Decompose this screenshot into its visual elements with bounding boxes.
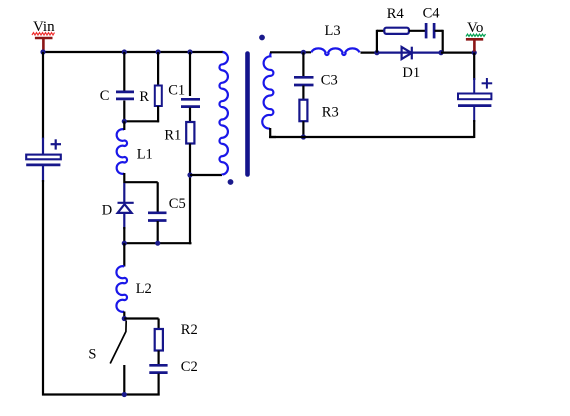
svg-text:C5: C5: [169, 196, 186, 212]
wire L1 bottom lead: [123, 173, 125, 183]
wire D bottom: [123, 227, 125, 244]
switch S blade: [110, 321, 126, 364]
svg-text:C2: C2: [181, 359, 198, 375]
junction node L2/S/R2: [122, 316, 127, 321]
switch S fixed contact: [123, 365, 125, 396]
svg-text:R2: R2: [181, 322, 198, 338]
grammar squiggle under Vo: [466, 34, 486, 36]
wire output cap top lead: [473, 53, 475, 80]
power port Vin: [35, 38, 53, 51]
wire R2 top lead: [158, 319, 160, 331]
wire C2 bottom lead: [158, 374, 160, 396]
resistor R1: [186, 122, 194, 144]
wire left vertical lower: [42, 180, 44, 396]
capacitor C4: [426, 23, 434, 38]
wire C1 branch top: [189, 52, 191, 96]
wire R branch top: [157, 52, 159, 86]
inductor L3: [311, 48, 359, 55]
svg-text:R1: R1: [164, 127, 181, 143]
wire bottom right: [269, 136, 474, 138]
polarity dot primary: [228, 179, 234, 185]
svg-text:L2: L2: [136, 281, 152, 297]
capacitor Cout electrolytic: [458, 78, 492, 122]
svg-text:D1: D1: [402, 65, 420, 81]
junction node C branch: [122, 49, 127, 54]
wire C5 top lead: [157, 182, 159, 212]
wire R4 branch right vertical: [442, 30, 444, 53]
diode D1: [378, 47, 442, 60]
junction node R branch: [156, 49, 161, 54]
wire secondary top: [270, 51, 311, 53]
svg-text:C4: C4: [423, 6, 441, 22]
wire node to Vo: [441, 51, 475, 53]
wire R4 left lead: [377, 30, 385, 32]
svg-text:L1: L1: [137, 146, 153, 162]
svg-text:S: S: [88, 347, 96, 363]
polarity dot secondary: [259, 35, 265, 41]
power port Vo: [466, 39, 483, 51]
resistor R4: [384, 28, 409, 34]
svg-text:C1: C1: [168, 82, 185, 98]
wire R bottom: [157, 106, 159, 122]
wire L2 top lead: [123, 243, 125, 266]
resistor R2: [155, 329, 163, 351]
capacitor C2: [149, 365, 167, 372]
wire D/C5 bottom horizontal: [123, 242, 191, 244]
wire C5 bottom lead: [157, 221, 159, 244]
wire output cap bottom lead: [473, 120, 475, 138]
junction node R3 bottom: [301, 134, 306, 139]
svg-text:R3: R3: [322, 105, 339, 121]
capacitor Cin electrolytic: [26, 138, 61, 182]
wire C3 branch top: [302, 52, 304, 76]
capacitor C5: [148, 213, 167, 221]
wire R1 bottom: [189, 144, 191, 245]
wire R4 branch left vertical: [376, 30, 378, 53]
junction node C3 top: [301, 50, 306, 55]
capacitor C3: [294, 77, 314, 85]
wire bottom left: [42, 393, 160, 395]
inductor L2: [116, 266, 127, 312]
transformer core: [245, 54, 250, 175]
inductor L1: [117, 129, 127, 174]
junction node L3/R4/D1: [374, 50, 379, 55]
transformer primary winding: [219, 52, 227, 175]
wire R4-C4 lead: [409, 30, 426, 32]
junction node Vo: [472, 50, 477, 55]
junction node D1/C4: [438, 50, 443, 55]
junction node R1/primary: [187, 172, 192, 177]
svg-text:R: R: [139, 89, 149, 105]
wire left vertical upper: [42, 52, 44, 139]
wire L2 bottom lead: [123, 312, 125, 320]
wire primary bottom: [190, 174, 222, 176]
junction node Vin corner: [40, 49, 45, 54]
wire top rail: [43, 51, 223, 53]
wire D/C5 top horizontal: [124, 181, 157, 183]
svg-text:C: C: [100, 88, 110, 104]
resistor R3: [299, 100, 307, 122]
capacitor C1: [181, 99, 200, 106]
svg-text:C3: C3: [321, 72, 338, 88]
diode D: [118, 183, 134, 229]
junction node bottom wire: [122, 392, 127, 397]
resistor R: [155, 86, 162, 107]
svg-text:Vo: Vo: [467, 20, 483, 36]
wire C3-R3 lead: [302, 86, 304, 101]
capacitor C: [116, 92, 134, 99]
wire L1 top lead: [123, 121, 125, 130]
junction node C1 branch: [187, 49, 192, 54]
spellcheck squiggle under Vin: [32, 33, 55, 35]
wire C4 right lead: [435, 30, 443, 32]
svg-text:L3: L3: [325, 23, 341, 39]
wire C1-R1 lead: [189, 108, 191, 124]
svg-text:R4: R4: [387, 6, 405, 22]
wire R2-C2 lead: [158, 351, 160, 366]
transformer secondary winding: [262, 52, 273, 128]
wire R3 bottom: [302, 121, 304, 138]
wire C branch top: [123, 52, 125, 91]
wire node to R2: [124, 317, 158, 319]
wire C bottom: [123, 101, 125, 123]
junction node C/R: [122, 119, 127, 124]
svg-text:D: D: [102, 202, 112, 218]
wire C-R junction: [123, 120, 159, 122]
wire secondary bottom corner: [270, 128, 276, 137]
junction node C5 bottom: [155, 241, 160, 246]
junction node D bottom: [122, 241, 127, 246]
wire L3 to node: [361, 51, 378, 53]
